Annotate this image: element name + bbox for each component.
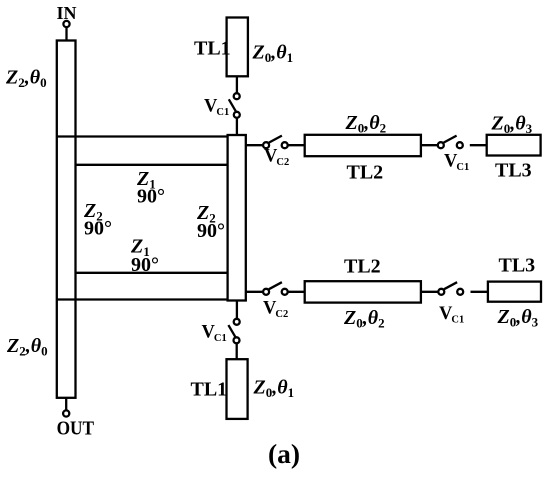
svg-text:90°: 90° [197,220,225,242]
svg-text:VC1: VC1 [202,323,227,345]
svg-text:VC1: VC1 [439,304,464,326]
transmission line TL1 bottom stub [227,359,248,419]
transmission line right vertical of ring [228,135,246,301]
wire ring bottom horizontal [57,298,229,300]
switch VC1 lower-right: lever [444,282,457,289]
transmission line TL3 lower [488,282,541,302]
switch VC1 bottom: terminal 2 [234,337,240,343]
wire switch VC2 to TL2 upper [288,144,305,146]
wire switch VC1 to TL3 lower [471,291,488,293]
switch VC2 lower: terminal 1 [263,289,269,295]
svg-text:VC2: VC2 [264,147,289,169]
wire switch to TL1 bottom [236,343,238,359]
wire ring inner bottom horizontal (Z1 line) [76,272,229,274]
wire TL2 lower to switch VC1 [421,291,438,293]
switch VC2 lower: terminal 2 [282,289,288,295]
svg-text:90°: 90° [137,185,165,207]
switch VC1 bottom: lever [228,325,235,337]
switch VC1 upper-right: terminal 2 [457,142,463,148]
wire ring top horizontal [57,135,229,137]
svg-text:90°: 90° [84,218,112,240]
svg-text:90°: 90° [131,254,159,276]
wire main line to OUT [65,398,67,410]
switch VC1 lower-right: terminal 1 [438,289,444,295]
wire right line to switch VC2 lower [246,291,263,293]
svg-text:Z0,θ2: Z0,θ2 [345,112,387,136]
svg-text:VC1: VC1 [444,151,469,173]
switch VC2 upper: terminal 2 [282,142,288,148]
transmission line TL1 top stub [227,18,248,77]
wire switch VC1 to TL3 upper [470,144,487,146]
transmission line Z2,theta0 main vertical (IN-OUT) [57,41,76,398]
switch VC2 upper: terminal 1 [263,142,269,148]
wire TL1 top to switch [236,76,238,93]
wire switch to right vertical line top [236,118,238,135]
switch VC2 lower: lever [269,282,282,289]
switch VC1 lower-right: terminal 2 [457,289,463,295]
switch VC2 upper: lever [269,136,282,143]
svg-text:TL3: TL3 [499,255,536,277]
svg-text:TL3: TL3 [495,160,532,182]
svg-text:Z0,θ3: Z0,θ3 [497,306,539,330]
svg-text:(a): (a) [268,438,300,469]
svg-text:TL1: TL1 [194,38,231,60]
svg-text:Z0,θ1: Z0,θ1 [252,42,294,66]
switch VC1 upper-right: terminal 1 [438,142,444,148]
node OUT [63,410,69,416]
svg-text:VC2: VC2 [263,299,288,321]
switch VC1 top: terminal 1 [234,93,240,99]
transmission line TL2 lower [305,281,421,302]
wire right line to switch VC2 upper [246,144,263,146]
wire TL2 upper to switch VC1 [421,144,438,146]
transmission line TL2 upper [305,135,421,156]
svg-text:TL2: TL2 [344,256,381,278]
switch VC1 bottom: terminal 1 [234,319,240,325]
wire ring inner top horizontal (Z1 line) [76,164,229,166]
wire right line bottom to switch VC1 bottom [236,301,238,319]
svg-text:TL1: TL1 [191,379,228,401]
wire IN to main line [65,28,67,41]
wire switch VC2 to TL2 lower [288,291,305,293]
svg-text:IN: IN [56,3,76,23]
svg-text:Z2,θ0: Z2,θ0 [6,335,48,359]
transmission line TL3 upper [487,135,541,156]
switch VC1 top: lever [229,99,236,111]
svg-text:TL2: TL2 [347,162,384,184]
svg-text:Z0,θ2: Z0,θ2 [343,307,385,331]
svg-text:OUT: OUT [57,418,95,440]
svg-text:Z0,θ1: Z0,θ1 [253,377,295,401]
svg-text:Z2,θ0: Z2,θ0 [5,67,47,91]
svg-text:Z0,θ3: Z0,θ3 [491,113,533,137]
switch VC1 upper-right: lever [444,136,457,143]
switch VC1 top: terminal 2 [234,112,240,118]
node IN [63,21,69,27]
svg-text:VC1: VC1 [204,96,229,118]
